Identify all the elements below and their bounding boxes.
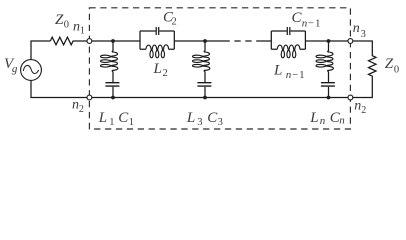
svg-text:Z: Z [385,56,394,72]
svg-text:1: 1 [129,117,134,128]
svg-text:L: L [153,61,162,77]
svg-text:n: n [353,21,360,36]
svg-text:L: L [273,62,282,78]
svg-text:1: 1 [299,69,305,81]
svg-text:L: L [98,110,107,126]
svg-text:2: 2 [79,104,84,115]
svg-text:n: n [320,115,326,127]
svg-text:Z: Z [55,12,64,28]
svg-text:n: n [302,17,308,29]
svg-text:1: 1 [315,17,321,29]
svg-text:2: 2 [361,105,366,116]
svg-text:1: 1 [80,25,85,36]
svg-text:−: − [308,17,314,29]
svg-text:g: g [12,63,18,75]
svg-text:0: 0 [394,64,399,75]
svg-text:C: C [118,110,129,126]
svg-text:3: 3 [197,117,202,128]
svg-text:3: 3 [218,117,223,128]
svg-text:0: 0 [64,20,69,31]
svg-text:2: 2 [163,68,168,79]
svg-text:n: n [339,115,345,127]
svg-text:n: n [286,69,292,81]
svg-text:n: n [354,98,361,113]
svg-text:L: L [186,110,195,126]
svg-text:3: 3 [361,29,366,40]
svg-text:1: 1 [109,117,114,128]
svg-text:L: L [309,110,318,126]
svg-text:−: − [292,69,298,81]
svg-text:2: 2 [172,16,177,27]
